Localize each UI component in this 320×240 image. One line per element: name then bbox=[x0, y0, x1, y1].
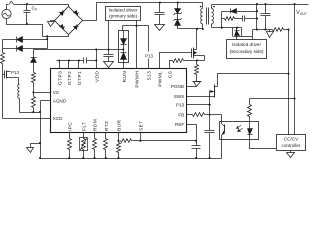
svg-text:AGND: AGND bbox=[53, 99, 67, 104]
svg-text:SWS: SWS bbox=[174, 94, 184, 99]
svg-text:RUN: RUN bbox=[122, 71, 128, 83]
svg-text:(primary side): (primary side) bbox=[109, 13, 138, 18]
svg-text:P13: P13 bbox=[145, 53, 153, 58]
svg-text:P13: P13 bbox=[176, 103, 185, 108]
svg-text:PWMH: PWMH bbox=[135, 71, 141, 88]
svg-text:Isolated driver: Isolated driver bbox=[109, 8, 138, 13]
svg-text:PGND: PGND bbox=[171, 84, 185, 89]
svg-text:GTP2: GTP2 bbox=[67, 71, 73, 85]
svg-text:FLT: FLT bbox=[81, 122, 87, 131]
svg-text:P13: P13 bbox=[11, 70, 19, 75]
svg-text:IPC: IPC bbox=[67, 122, 73, 131]
svg-text:S13: S13 bbox=[147, 71, 153, 81]
svg-text:OUT: OUT bbox=[300, 12, 307, 16]
svg-text:BUR: BUR bbox=[117, 120, 123, 131]
svg-text:VS: VS bbox=[53, 90, 59, 95]
svg-text:SET: SET bbox=[139, 120, 145, 131]
svg-text:CC/CV: CC/CV bbox=[284, 136, 299, 141]
svg-text:RDM: RDM bbox=[93, 119, 99, 131]
svg-text:GTP3: GTP3 bbox=[57, 71, 63, 85]
svg-text:CS: CS bbox=[168, 71, 174, 78]
svg-text:(secondary side): (secondary side) bbox=[230, 49, 264, 54]
svg-text:XCD: XCD bbox=[53, 116, 63, 121]
svg-text:PWML: PWML bbox=[158, 71, 164, 87]
svg-text:controller: controller bbox=[282, 143, 301, 148]
svg-text:Isolated driver: Isolated driver bbox=[232, 42, 261, 47]
svg-text:FB: FB bbox=[178, 112, 184, 117]
svg-text:GTP1: GTP1 bbox=[77, 71, 83, 85]
svg-text:RTZ: RTZ bbox=[104, 121, 110, 131]
svg-text:REF: REF bbox=[175, 122, 184, 127]
svg-text:VDD: VDD bbox=[94, 71, 100, 82]
